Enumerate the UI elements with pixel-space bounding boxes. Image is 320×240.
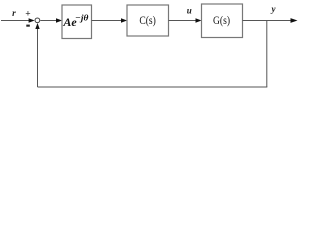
- svg-text:r: r: [12, 9, 16, 19]
- wire: feedback down from output: [266, 21, 268, 88]
- block G(s): [202, 4, 243, 38]
- block Ae^-jtheta: [62, 5, 92, 39]
- wire: output y: [243, 18, 298, 23]
- svg-text:G(s): G(s): [213, 13, 230, 27]
- svg-text:y: y: [271, 4, 277, 14]
- svg-text:C(s): C(s): [139, 13, 156, 27]
- wire: block C(s) to block G(s), labelled u: [169, 18, 202, 22]
- minus sign at summing junction: [26, 25, 30, 27]
- svg-text:−jθ: −jθ: [75, 13, 89, 23]
- block C(s): [127, 5, 169, 36]
- summing junction: [35, 18, 40, 23]
- wire: feedback up to summing junction: [35, 23, 39, 87]
- svg-text:+: +: [25, 10, 30, 20]
- wire: block Ae to block C(s): [92, 18, 128, 22]
- wire: feedback bottom run: [38, 86, 268, 88]
- svg-text:u: u: [187, 6, 192, 16]
- wire: summing junction to block Ae: [40, 18, 62, 22]
- wire: input r to summing junction: [1, 18, 35, 22]
